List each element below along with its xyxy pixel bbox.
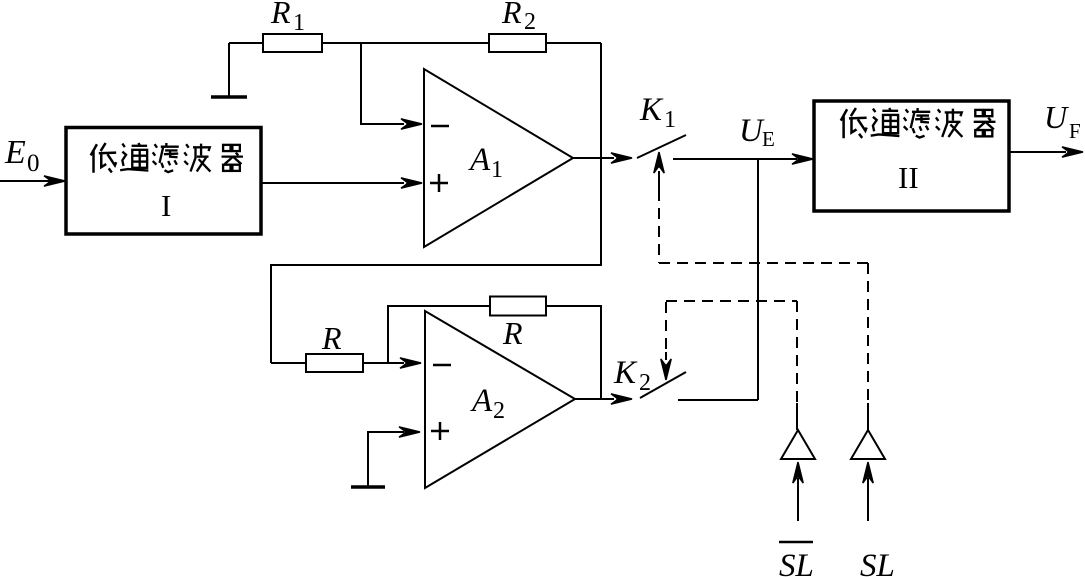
arrow into A2 noninverting: [399, 427, 420, 437]
svg-text:R: R: [501, 0, 522, 30]
op-amp A2 plus sign: [431, 422, 449, 440]
arrow into box I: [44, 176, 65, 186]
svg-text:A: A: [470, 383, 493, 419]
buffer driver left: [781, 430, 815, 459]
wire A2 noninverting input: [368, 432, 404, 486]
op-amp A1 minus sign: [431, 125, 449, 128]
svg-text:E: E: [762, 127, 775, 151]
dashed K2 control horizontal: [666, 300, 797, 302]
svg-text:R: R: [502, 315, 523, 351]
box II low pass filter II: [814, 101, 1009, 211]
dashed K2 control vertical: [665, 302, 667, 358]
arrow into A1 noninverting: [401, 178, 422, 188]
label UF: [1044, 99, 1081, 143]
label K1: [639, 92, 676, 133]
resistor R input A2: [306, 354, 363, 372]
svg-text:R: R: [270, 0, 291, 30]
label K2: [613, 355, 651, 396]
svg-text:SL: SL: [860, 548, 895, 577]
svg-text:I: I: [161, 188, 171, 223]
wire feedback right to A2 output: [546, 306, 601, 399]
ground A2 bar: [351, 485, 385, 489]
svg-text:II: II: [898, 160, 919, 195]
wire K1 to box II: [673, 158, 797, 160]
svg-text:K: K: [639, 92, 664, 128]
svg-text:U: U: [1044, 99, 1069, 135]
wire A1 output: [573, 157, 614, 159]
arrow SL-bar into left buffer: [793, 462, 803, 521]
svg-text:K: K: [613, 355, 638, 391]
arrow A1 output: [611, 153, 632, 163]
wire A2 feedback loop: [388, 306, 490, 363]
op-amp A2: [425, 311, 575, 488]
svg-text:2: 2: [639, 370, 651, 396]
label A1: [468, 142, 503, 183]
svg-text:SL: SL: [779, 548, 814, 577]
svg-text:F: F: [1069, 119, 1081, 143]
arrow into A1 inverting: [401, 119, 422, 129]
dashed K1 control horizontal: [659, 262, 868, 264]
arrow box II output: [1062, 147, 1083, 157]
label R1: [270, 0, 305, 36]
arrow into A2 inverting: [400, 358, 421, 368]
label A2: [470, 383, 505, 424]
svg-text:2: 2: [524, 9, 536, 35]
svg-text:2: 2: [493, 398, 505, 424]
wire box II output: [1009, 151, 1066, 153]
dashed SL right vertical: [867, 263, 869, 403]
arrow SL into right buffer: [863, 462, 873, 521]
node UE vertical: [757, 159, 759, 400]
wire to resistor R input: [271, 362, 306, 364]
label R2: [501, 0, 536, 35]
wire R2 right: [546, 42, 601, 44]
K2 control arrow down: [661, 352, 671, 380]
wire R2 feedback drop to A2 chain: [271, 43, 601, 363]
arrow into box II: [792, 154, 813, 164]
svg-text:1: 1: [293, 10, 305, 36]
wire input E0: [0, 180, 50, 182]
wire junction drop to A1 inverting input: [361, 43, 404, 124]
switch K1: [637, 135, 686, 158]
dashed control lines: [659, 190, 868, 403]
svg-text:1: 1: [491, 157, 503, 183]
label UE: [739, 113, 775, 151]
dashed SL-bar left vertical: [796, 301, 798, 403]
ground top vertical: [228, 43, 230, 96]
wire R1 to R2: [322, 42, 489, 44]
dashed SL-bar left vertical solid tail: [796, 403, 798, 430]
arrow A2 output: [611, 394, 632, 404]
op-amp A2 minus sign: [433, 364, 451, 367]
K1 control arrow up: [654, 152, 664, 192]
dashed SL right vertical solid tail: [867, 403, 869, 430]
svg-text:1: 1: [664, 107, 676, 133]
wire box I to A1 noninverting input: [261, 182, 404, 184]
box I low pass filter I: [66, 128, 261, 235]
SL-bar overline: [779, 541, 813, 544]
svg-text:R: R: [321, 320, 342, 356]
text low-pass filter box II: [841, 108, 996, 138]
resistor R feedback A2: [490, 297, 546, 316]
label E0: [4, 134, 40, 177]
wire R to A2 inverting input: [363, 362, 404, 364]
svg-text:A: A: [468, 142, 491, 178]
switch K2: [640, 372, 686, 398]
ground top bar: [211, 95, 247, 99]
op-amp A1 plus sign: [430, 174, 448, 192]
wire ground stub top: [229, 42, 263, 44]
buffer driver right: [851, 430, 885, 459]
dashed K1 control vertical: [658, 190, 660, 263]
wire K2 output to UE: [678, 399, 758, 401]
wire A2 output: [575, 398, 614, 400]
text low-pass filter box I: [91, 143, 243, 173]
op-amp A1: [424, 69, 573, 247]
resistor R2: [489, 34, 546, 52]
resistor R1: [263, 34, 322, 52]
svg-text:E: E: [4, 134, 26, 171]
svg-text:0: 0: [27, 150, 40, 177]
